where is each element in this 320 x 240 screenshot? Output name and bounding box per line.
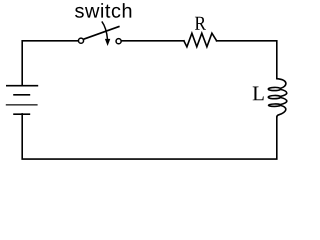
wire top-left: battery to switch xyxy=(22,41,78,86)
switch actuation arrowhead xyxy=(105,39,110,46)
wire: switch to resistor xyxy=(121,40,183,42)
inductor L1 coil xyxy=(268,79,287,117)
switch terminal circle left xyxy=(78,38,83,43)
switch blade xyxy=(84,26,120,39)
switch SW1 xyxy=(78,21,121,46)
battery plate short bottom (-) xyxy=(13,113,30,115)
battery plate long gray xyxy=(6,104,38,106)
label L xyxy=(253,87,264,101)
resistor R1 zigzag xyxy=(184,33,217,47)
battery B1 xyxy=(6,86,38,115)
battery plate long top (+) xyxy=(6,85,38,87)
wire bottom loop: battery negative to inductor bottom xyxy=(22,114,277,159)
switch actuation arrow shaft xyxy=(102,21,108,39)
switch terminal circle right xyxy=(116,39,121,44)
wire: resistor to top-right corner xyxy=(217,41,277,79)
label switch xyxy=(75,3,131,18)
battery plate short xyxy=(13,94,30,96)
label R xyxy=(195,17,206,30)
